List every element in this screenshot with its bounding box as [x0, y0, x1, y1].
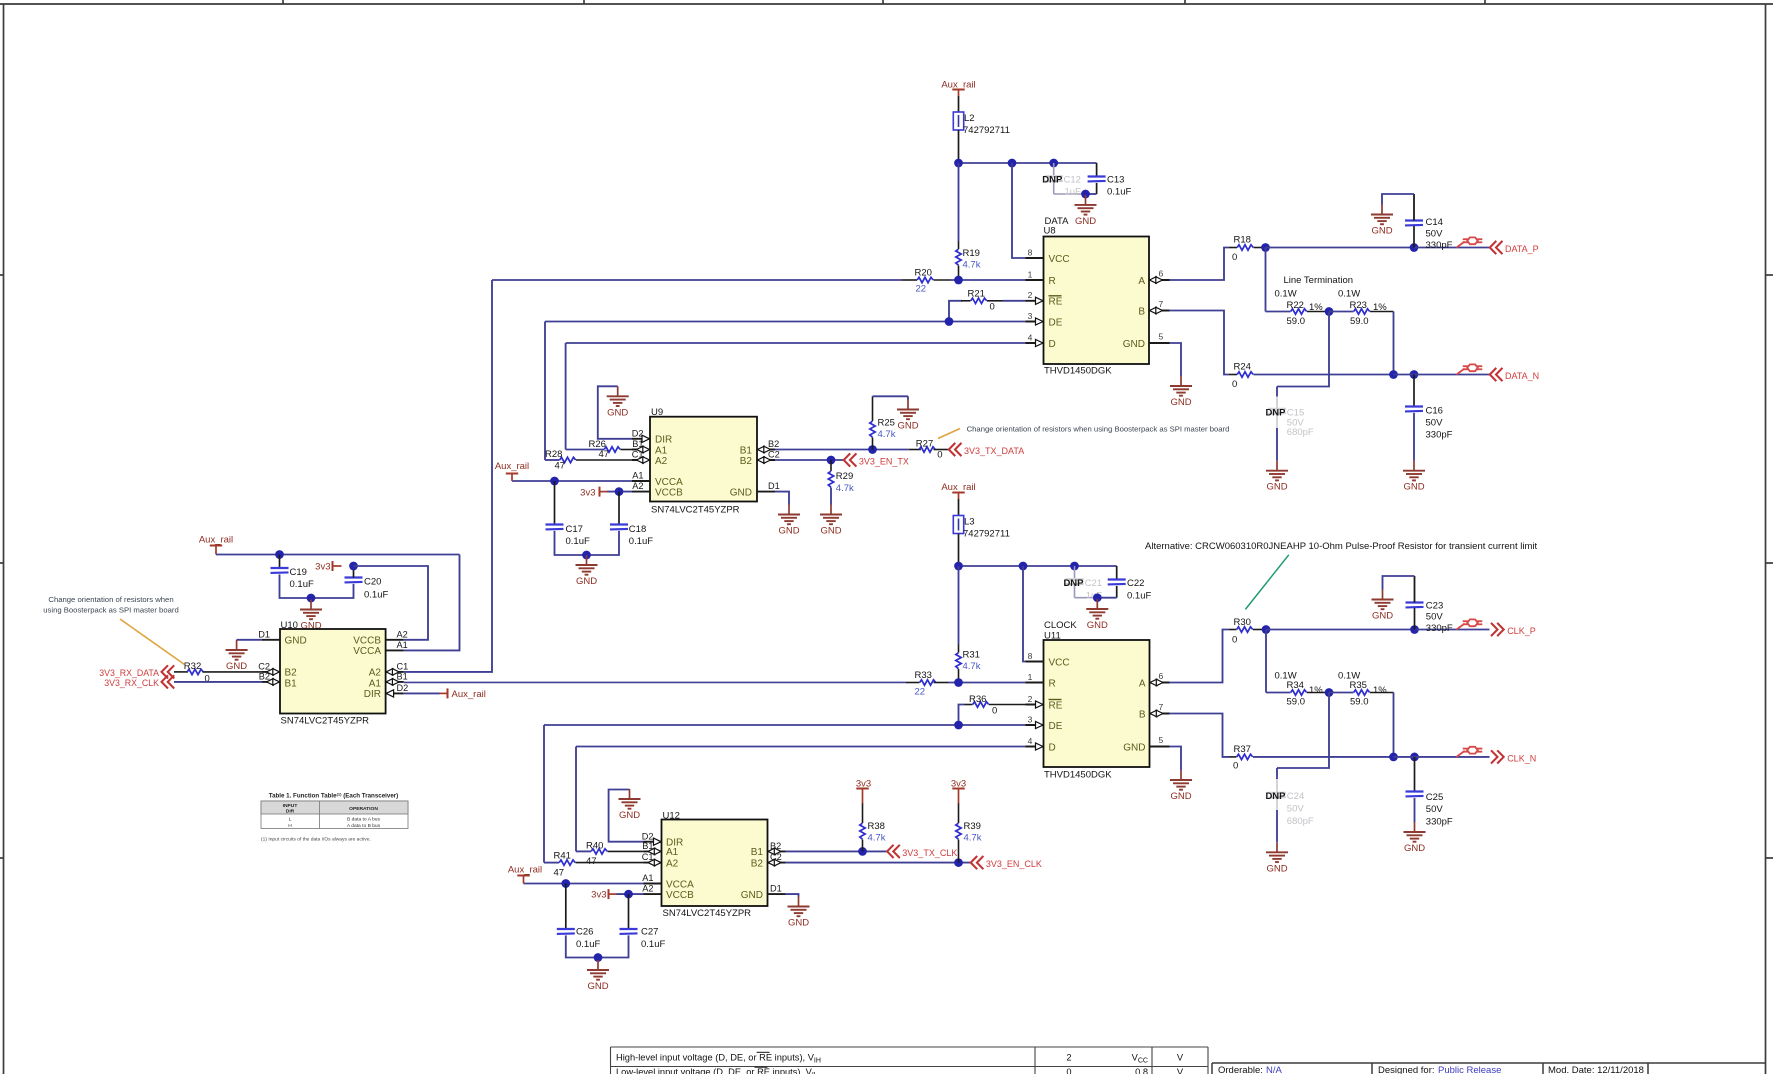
- svg-text:22: 22: [915, 686, 926, 697]
- svg-text:4.7k: 4.7k: [964, 833, 982, 844]
- svg-text:R29: R29: [836, 471, 853, 482]
- svg-text:R22: R22: [1287, 300, 1304, 311]
- svg-text:0: 0: [1232, 379, 1237, 390]
- svg-text:GND: GND: [285, 636, 307, 647]
- svg-text:R19: R19: [963, 248, 980, 259]
- svg-text:GND: GND: [730, 487, 752, 498]
- svg-text:47: 47: [599, 449, 610, 460]
- svg-text:0.1uF: 0.1uF: [566, 536, 590, 547]
- svg-text:DATA_N: DATA_N: [1505, 371, 1539, 381]
- svg-text:0.1uF: 0.1uF: [629, 536, 653, 547]
- svg-text:3v3: 3v3: [580, 487, 595, 498]
- svg-text:CLOCK: CLOCK: [1044, 620, 1077, 631]
- svg-text:3V3_RX_DATA: 3V3_RX_DATA: [99, 668, 159, 678]
- svg-text:50V: 50V: [1426, 418, 1444, 429]
- svg-text:GND: GND: [741, 890, 763, 901]
- svg-text:A2: A2: [655, 456, 668, 467]
- svg-text:0: 0: [937, 450, 942, 461]
- svg-text:3v3: 3v3: [591, 890, 606, 901]
- svg-text:A data to B bus: A data to B bus: [347, 823, 381, 829]
- svg-text:330pF: 330pF: [1426, 429, 1453, 440]
- svg-text:A2: A2: [369, 668, 382, 679]
- svg-text:DE: DE: [1049, 317, 1063, 328]
- svg-text:Low-level input voltage (D, DE: Low-level input voltage (D, DE, or RE in…: [616, 1067, 818, 1074]
- svg-text:6: 6: [1159, 671, 1164, 681]
- svg-text:0.1W: 0.1W: [1338, 289, 1360, 300]
- svg-text:R27: R27: [916, 439, 933, 450]
- svg-text:A1: A1: [397, 640, 408, 650]
- svg-text:D2: D2: [397, 683, 409, 693]
- svg-text:C18: C18: [629, 524, 646, 535]
- svg-text:L3: L3: [964, 517, 975, 528]
- svg-text:A1: A1: [666, 847, 679, 858]
- svg-text:R40: R40: [586, 840, 603, 851]
- svg-text:B1: B1: [285, 678, 298, 689]
- svg-text:5: 5: [1159, 331, 1164, 341]
- svg-text:GND: GND: [1266, 863, 1287, 874]
- svg-text:1%: 1%: [1309, 302, 1323, 313]
- svg-text:C1: C1: [397, 662, 409, 672]
- svg-text:C27: C27: [641, 926, 658, 937]
- svg-text:A1: A1: [655, 445, 668, 456]
- svg-text:3v3: 3v3: [315, 562, 330, 573]
- svg-text:50V: 50V: [1426, 804, 1444, 815]
- svg-text:GND: GND: [607, 407, 628, 418]
- svg-text:SN74LVC2T45YZPR: SN74LVC2T45YZPR: [663, 908, 752, 919]
- svg-text:0.1uF: 0.1uF: [641, 939, 665, 950]
- svg-text:B2: B2: [751, 858, 764, 869]
- svg-text:VCC: VCC: [1132, 1053, 1148, 1065]
- svg-text:R23: R23: [1350, 300, 1367, 311]
- svg-text:680pF: 680pF: [1287, 427, 1314, 438]
- svg-text:2: 2: [1028, 290, 1033, 300]
- svg-text:R31: R31: [963, 650, 980, 661]
- svg-text:1%: 1%: [1309, 685, 1323, 696]
- svg-text:0.1uF: 0.1uF: [576, 939, 600, 950]
- svg-text:VCC: VCC: [1049, 254, 1070, 265]
- svg-text:GND: GND: [226, 661, 247, 672]
- svg-text:1: 1: [1028, 672, 1033, 682]
- svg-text:0.8: 0.8: [1135, 1067, 1148, 1074]
- svg-text:330pF: 330pF: [1426, 623, 1453, 634]
- svg-text:0.1W: 0.1W: [1275, 289, 1297, 300]
- svg-text:(1) Input circuits of the d: (1) Input circuits of the data I/Os alwa…: [261, 837, 371, 843]
- svg-text:1uF: 1uF: [1065, 187, 1082, 198]
- svg-text:680pF: 680pF: [1287, 816, 1314, 827]
- svg-text:B2: B2: [768, 439, 779, 449]
- svg-text:A2: A2: [632, 481, 643, 491]
- svg-text:L: L: [289, 816, 292, 822]
- svg-text:High-level input voltage (D, D: High-level input voltage (D, DE, or RE i…: [616, 1053, 821, 1065]
- svg-text:VCCA: VCCA: [353, 646, 381, 657]
- svg-text:L2: L2: [964, 113, 975, 124]
- svg-text:5: 5: [1159, 735, 1164, 745]
- svg-text:VCCB: VCCB: [655, 487, 683, 498]
- svg-text:C16: C16: [1426, 406, 1443, 417]
- svg-text:3V3_TX_DATA: 3V3_TX_DATA: [964, 446, 1024, 456]
- svg-text:GND: GND: [619, 810, 640, 821]
- svg-text:R: R: [1049, 276, 1056, 287]
- svg-text:D: D: [1049, 742, 1056, 753]
- svg-text:A1: A1: [642, 873, 653, 883]
- svg-text:C17: C17: [566, 524, 583, 535]
- svg-text:VCCA: VCCA: [666, 879, 694, 890]
- svg-text:59.0: 59.0: [1287, 316, 1306, 327]
- svg-text:GND: GND: [820, 526, 841, 537]
- svg-text:A: A: [1139, 678, 1146, 689]
- svg-text:Alternative: CRCW060310R0JNEAH: Alternative: CRCW060310R0JNEAHP 10-Ohm P…: [1145, 541, 1537, 552]
- svg-text:D1: D1: [768, 481, 780, 491]
- svg-text:GND: GND: [897, 421, 918, 432]
- svg-text:C26: C26: [576, 926, 593, 937]
- svg-text:DIR: DIR: [286, 809, 295, 815]
- svg-text:Change orientation of resistor: Change orientation of resistors when: [48, 595, 173, 604]
- svg-text:U8: U8: [1044, 226, 1056, 237]
- svg-text:GND: GND: [1087, 620, 1108, 631]
- svg-text:R20: R20: [915, 268, 932, 279]
- svg-text:4.7k: 4.7k: [963, 260, 981, 271]
- svg-text:2: 2: [1028, 694, 1033, 704]
- svg-text:CLK_P: CLK_P: [1507, 626, 1536, 636]
- svg-text:SN74LVC2T45YZPR: SN74LVC2T45YZPR: [281, 716, 370, 727]
- svg-text:GND: GND: [587, 981, 608, 992]
- svg-text:C22: C22: [1127, 578, 1144, 589]
- svg-text:C21: C21: [1085, 578, 1102, 589]
- svg-text:Aux_rail: Aux_rail: [199, 535, 233, 546]
- svg-text:D1: D1: [258, 629, 270, 639]
- svg-text:Change orientation of resistor: Change orientation of resistors when usi…: [967, 424, 1230, 433]
- svg-text:0: 0: [1066, 1067, 1071, 1074]
- svg-text:4: 4: [1028, 332, 1033, 342]
- svg-text:DIR: DIR: [364, 689, 381, 700]
- svg-text:GND: GND: [1404, 843, 1425, 854]
- svg-text:0: 0: [992, 705, 997, 716]
- svg-text:Line Termination: Line Termination: [1284, 275, 1354, 286]
- svg-text:50V: 50V: [1426, 611, 1444, 622]
- svg-text:R30: R30: [1234, 617, 1251, 628]
- svg-text:R32: R32: [184, 661, 201, 672]
- svg-text:0.1uF: 0.1uF: [1127, 590, 1151, 601]
- svg-text:DNP: DNP: [1265, 407, 1286, 418]
- svg-text:A: A: [1138, 276, 1145, 287]
- svg-text:GND: GND: [1075, 216, 1096, 227]
- svg-text:C12: C12: [1064, 175, 1081, 186]
- svg-text:B1: B1: [740, 445, 753, 456]
- svg-text:B data to A bus: B data to A bus: [347, 816, 380, 822]
- svg-text:C25: C25: [1426, 792, 1443, 803]
- svg-text:GND: GND: [1372, 611, 1393, 622]
- svg-text:3V3_RX_CLK: 3V3_RX_CLK: [104, 678, 159, 688]
- svg-text:3: 3: [1028, 311, 1033, 321]
- svg-text:C20: C20: [364, 576, 381, 587]
- svg-text:50V: 50V: [1287, 803, 1305, 814]
- svg-text:7: 7: [1159, 702, 1164, 712]
- svg-text:VCC: VCC: [1049, 657, 1070, 668]
- svg-text:Mod. Date: 12/11/2018: Mod. Date: 12/11/2018: [1548, 1065, 1644, 1074]
- svg-text:59.0: 59.0: [1350, 316, 1369, 327]
- svg-text:4.7k: 4.7k: [836, 483, 854, 494]
- svg-text:6: 6: [1159, 268, 1164, 278]
- svg-text:DE: DE: [1049, 721, 1063, 732]
- svg-text:INPUT: INPUT: [283, 803, 298, 809]
- svg-text:R41: R41: [554, 851, 571, 862]
- svg-text:GND: GND: [1403, 482, 1424, 493]
- svg-text:47: 47: [586, 856, 597, 867]
- svg-text:3V3_EN_TX: 3V3_EN_TX: [859, 456, 909, 466]
- svg-text:RE: RE: [1049, 700, 1063, 711]
- svg-text:R21: R21: [968, 288, 985, 299]
- svg-text:4.7k: 4.7k: [963, 661, 981, 672]
- svg-text:R39: R39: [964, 821, 981, 832]
- svg-text:59.0: 59.0: [1350, 697, 1369, 708]
- svg-text:Public Release: Public Release: [1438, 1065, 1501, 1074]
- svg-text:GND: GND: [1123, 742, 1145, 753]
- svg-text:GND: GND: [576, 576, 597, 587]
- svg-text:3v3: 3v3: [951, 778, 966, 789]
- svg-text:1%: 1%: [1373, 302, 1387, 313]
- svg-text:DNP: DNP: [1042, 175, 1063, 186]
- svg-text:B2: B2: [285, 668, 298, 679]
- svg-text:50V: 50V: [1426, 229, 1444, 240]
- svg-text:A1: A1: [632, 471, 643, 481]
- svg-text:R34: R34: [1287, 680, 1304, 691]
- svg-text:8: 8: [1028, 651, 1033, 661]
- svg-text:GND: GND: [1371, 226, 1392, 237]
- svg-text:C2: C2: [258, 662, 270, 672]
- svg-text:D1: D1: [770, 884, 782, 894]
- svg-text:Aux_rail: Aux_rail: [495, 461, 529, 472]
- svg-text:THVD1450DGK: THVD1450DGK: [1044, 769, 1112, 780]
- svg-text:R24: R24: [1234, 362, 1251, 373]
- svg-text:GND: GND: [1123, 339, 1145, 350]
- svg-text:Designed for:: Designed for:: [1378, 1065, 1435, 1074]
- svg-text:Table 1. Function Table(1) (Ea: Table 1. Function Table(1) (Each Transce…: [269, 791, 398, 800]
- svg-text:RE: RE: [1049, 297, 1063, 308]
- svg-text:0: 0: [1233, 761, 1238, 772]
- svg-text:GND: GND: [1170, 397, 1191, 408]
- svg-text:330pF: 330pF: [1426, 240, 1453, 251]
- svg-text:DNP: DNP: [1063, 578, 1084, 589]
- svg-text:R: R: [1049, 678, 1056, 689]
- svg-text:V: V: [1177, 1053, 1184, 1063]
- svg-text:3v3: 3v3: [856, 778, 871, 789]
- svg-text:2: 2: [1066, 1053, 1071, 1063]
- svg-text:VCCB: VCCB: [353, 636, 381, 647]
- svg-text:R38: R38: [868, 821, 885, 832]
- svg-text:B2: B2: [740, 456, 753, 467]
- svg-text:VCCB: VCCB: [666, 890, 694, 901]
- svg-text:DATA_P: DATA_P: [1505, 244, 1539, 254]
- svg-text:0: 0: [990, 302, 995, 313]
- svg-text:A1: A1: [369, 678, 382, 689]
- svg-text:0.1uF: 0.1uF: [364, 589, 388, 600]
- svg-text:Aux_rail: Aux_rail: [941, 482, 975, 493]
- svg-text:742792711: 742792711: [963, 125, 1010, 136]
- svg-text:B: B: [1139, 709, 1146, 720]
- svg-text:CLK_N: CLK_N: [1507, 753, 1536, 763]
- svg-text:D2: D2: [642, 831, 654, 841]
- svg-text:3V3_EN_CLK: 3V3_EN_CLK: [986, 859, 1042, 869]
- svg-text:C2: C2: [768, 450, 780, 460]
- svg-text:R35: R35: [1350, 680, 1367, 691]
- svg-text:47: 47: [555, 461, 566, 472]
- svg-text:B: B: [1138, 306, 1145, 317]
- svg-text:C19: C19: [290, 567, 307, 578]
- svg-text:R28: R28: [545, 449, 562, 460]
- svg-text:C24: C24: [1287, 791, 1304, 802]
- svg-text:Aux_rail: Aux_rail: [452, 689, 486, 700]
- svg-text:4.7k: 4.7k: [878, 429, 896, 440]
- svg-text:R33: R33: [915, 670, 932, 681]
- svg-text:DIR: DIR: [655, 435, 672, 446]
- svg-text:GND: GND: [1266, 482, 1287, 493]
- svg-text:59.0: 59.0: [1287, 697, 1306, 708]
- svg-text:N/A: N/A: [1266, 1065, 1283, 1074]
- svg-text:4.7k: 4.7k: [868, 833, 886, 844]
- svg-text:D: D: [1049, 339, 1056, 350]
- svg-text:1%: 1%: [1373, 685, 1387, 696]
- svg-text:Orderable:: Orderable:: [1218, 1065, 1263, 1074]
- svg-text:B1: B1: [751, 847, 764, 858]
- svg-text:3: 3: [1028, 714, 1033, 724]
- svg-text:0: 0: [1232, 634, 1237, 645]
- svg-text:742792711: 742792711: [963, 529, 1010, 540]
- svg-text:22: 22: [916, 284, 927, 295]
- svg-text:GND: GND: [788, 918, 809, 929]
- svg-text:V: V: [1177, 1067, 1184, 1074]
- svg-text:7: 7: [1159, 299, 1164, 309]
- svg-text:4: 4: [1028, 736, 1033, 746]
- svg-text:0: 0: [1232, 252, 1237, 263]
- svg-text:C14: C14: [1426, 217, 1443, 228]
- svg-text:R25: R25: [878, 417, 895, 428]
- svg-text:C13: C13: [1107, 175, 1124, 186]
- svg-text:R36: R36: [969, 694, 986, 705]
- svg-text:8: 8: [1028, 247, 1033, 257]
- svg-text:0.1uF: 0.1uF: [1107, 187, 1131, 198]
- svg-text:C23: C23: [1426, 600, 1443, 611]
- svg-text:R18: R18: [1234, 235, 1251, 246]
- svg-text:3V3_TX_CLK: 3V3_TX_CLK: [902, 848, 957, 858]
- svg-text:A2: A2: [397, 629, 408, 639]
- svg-text:0.1uF: 0.1uF: [290, 579, 314, 590]
- svg-text:H: H: [288, 823, 292, 829]
- svg-text:using Boosterpack as SPI maste: using Boosterpack as SPI master board: [43, 605, 178, 614]
- svg-text:GND: GND: [778, 526, 799, 537]
- svg-text:47: 47: [554, 867, 565, 878]
- svg-text:1: 1: [1028, 269, 1033, 279]
- svg-text:Aux_rail: Aux_rail: [508, 865, 542, 876]
- svg-text:SN74LVC2T45YZPR: SN74LVC2T45YZPR: [651, 504, 740, 515]
- svg-text:GND: GND: [1170, 791, 1191, 802]
- svg-text:DNP: DNP: [1265, 791, 1286, 802]
- svg-text:OPERATION: OPERATION: [349, 806, 378, 812]
- svg-text:A2: A2: [666, 858, 679, 869]
- svg-text:VCCA: VCCA: [655, 477, 683, 488]
- svg-text:330pF: 330pF: [1426, 816, 1453, 827]
- svg-text:A2: A2: [642, 884, 653, 894]
- svg-text:R37: R37: [1234, 744, 1251, 755]
- svg-text:THVD1450DGK: THVD1450DGK: [1044, 366, 1112, 377]
